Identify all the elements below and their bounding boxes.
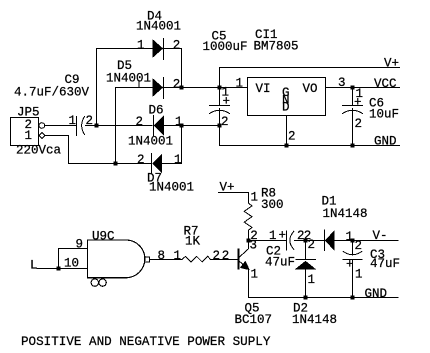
wire D6 anode to node [164, 125, 220, 127]
svg-text:D: D [282, 101, 290, 115]
junction AC2 D7 [113, 161, 117, 165]
wire regulator pin 2 to ground [286, 116, 288, 146]
svg-text:1: 1 [346, 230, 354, 244]
svg-text:2: 2 [86, 114, 94, 128]
wire D4 cathode down to D5 row [164, 49, 182, 88]
junction R8 collector C2 [246, 238, 250, 242]
svg-text:1N4148: 1N4148 [323, 207, 368, 221]
wire gate output to R7 [150, 259, 183, 261]
svg-text:1000uF: 1000uF [203, 40, 248, 54]
svg-text:10uF: 10uF [369, 108, 399, 122]
svg-text:1: 1 [137, 38, 145, 52]
svg-text:GND: GND [374, 135, 397, 149]
wire net L to gate [37, 268, 88, 270]
nand gate U9C body [88, 240, 145, 278]
svg-text:2: 2 [355, 239, 363, 253]
svg-text:2: 2 [221, 115, 229, 129]
capacitor C3 plate 2 curve [343, 251, 362, 254]
wire C2 to D2 node [295, 240, 306, 242]
svg-text:POSITIVE AND NEGATIVE POWER SU: POSITIVE AND NEGATIVE POWER SUPLY [21, 335, 271, 349]
capacitor C3 bottom lead [352, 260, 354, 298]
diode D2 triangle [296, 261, 315, 269]
svg-text:U9C: U9C [92, 230, 115, 244]
junction regulator pin2 gnd [284, 143, 288, 147]
svg-text:+: + [223, 95, 231, 109]
junction C6 bottom [350, 143, 354, 147]
svg-text:8: 8 [158, 249, 166, 263]
svg-text:1: 1 [355, 268, 363, 282]
wire JP5 pin1 to AC2 row [45, 136, 151, 164]
wire JP5 pin2 to C9 [45, 125, 76, 127]
nand gate output bubble [145, 257, 150, 262]
resistor R7 zigzag [182, 256, 211, 262]
wire AC2 vertical to D5 anode [116, 88, 153, 164]
capacitor C9 plate 1 [76, 117, 78, 136]
svg-text:10: 10 [64, 256, 79, 270]
svg-text:1N4001: 1N4001 [128, 135, 173, 149]
capacitor C6 plate 2 [343, 110, 363, 113]
wire gate pin 9 branch [59, 249, 88, 269]
svg-text:BM7805: BM7805 [254, 40, 299, 54]
capacitor C6 top lead [352, 88, 354, 106]
svg-text:1N4001: 1N4001 [136, 20, 181, 34]
net V+ underline and wire to R8 [219, 193, 249, 204]
svg-text:3: 3 [250, 239, 258, 253]
capacitor C6 bottom lead [352, 109, 354, 146]
svg-text:1K: 1K [185, 235, 201, 249]
svg-text:4.7uF/630V: 4.7uF/630V [14, 86, 90, 100]
junction C9 output [94, 123, 98, 127]
svg-text:2: 2 [355, 117, 363, 131]
diode D6 cathode bar [153, 116, 155, 136]
svg-text:VO: VO [303, 82, 318, 96]
diode D5 triangle [153, 79, 163, 97]
svg-text:2: 2 [173, 38, 181, 52]
svg-text:BC107: BC107 [235, 313, 273, 327]
diode D2 top lead [305, 241, 307, 260]
resistor R8 zigzag [244, 203, 252, 230]
svg-text:+: + [346, 257, 354, 271]
svg-text:V+: V+ [220, 181, 235, 195]
svg-text:47uF: 47uF [370, 257, 400, 271]
svg-text:300: 300 [261, 198, 284, 212]
junction D4 D5 cathodes [179, 85, 183, 89]
junction D1 C3 V- [350, 238, 354, 242]
capacitor C5 top lead [219, 88, 221, 106]
junction D6 D7 anodes [179, 123, 183, 127]
pin 1 tick D5 [138, 81, 140, 88]
svg-text:VI: VI [256, 82, 271, 96]
svg-text:3: 3 [338, 76, 346, 90]
svg-text:1: 1 [25, 129, 33, 143]
wire D2 node to D1 [306, 240, 325, 242]
svg-text:1N4148: 1N4148 [292, 313, 337, 327]
svg-text:2: 2 [213, 249, 221, 263]
wire R7 to Q5 base [211, 259, 239, 261]
svg-text:2: 2 [308, 238, 316, 252]
capacitor C3 top lead [352, 241, 354, 256]
capacitor C2 plate 2 [290, 231, 294, 249]
junction D2 gnd [303, 295, 307, 299]
regulator CI1 box [248, 78, 326, 116]
capacitor C6 plate 1 [343, 105, 363, 107]
diode D4 triangle [153, 40, 163, 58]
transistor Q5 collector [239, 241, 249, 258]
capacitor C5 bottom lead [219, 109, 221, 146]
svg-text:47uF: 47uF [265, 256, 295, 270]
wire VO to VCC rail [326, 87, 400, 89]
svg-text:1: 1 [269, 229, 277, 243]
svg-text:GND: GND [365, 287, 388, 301]
svg-text:1: 1 [251, 268, 259, 282]
svg-text:1: 1 [251, 191, 259, 205]
svg-text:220Vca: 220Vca [16, 144, 62, 158]
capacitor C3 plate 1 [343, 259, 362, 261]
svg-text:1: 1 [236, 77, 244, 91]
svg-text:L: L [30, 258, 38, 272]
svg-text:1: 1 [175, 115, 183, 129]
junction C5 top [217, 85, 221, 89]
diode D4 cathode bar [163, 39, 165, 60]
diode D7 cathode bar [151, 154, 153, 174]
diode D1 triangle [325, 231, 334, 250]
transistor Q5 base bar [238, 250, 240, 269]
svg-text:D6: D6 [149, 104, 164, 118]
junction C6 top [350, 85, 354, 89]
wire V+ rail [220, 68, 400, 88]
svg-text:1: 1 [174, 249, 182, 263]
wire D1 to V- node [334, 240, 398, 242]
junction C5 bottom [217, 123, 221, 127]
wire ground rail top [220, 145, 400, 147]
wire C9 to node AC1 [86, 125, 153, 127]
Q5 emitter arrow [241, 262, 249, 270]
diode D2 cathode bar [296, 259, 316, 261]
wire D5 cathode to regulator VI [164, 87, 248, 89]
nand gate oo mark 2 [99, 279, 106, 286]
svg-text:1N4001: 1N4001 [149, 181, 194, 195]
svg-text:1N4001: 1N4001 [106, 72, 151, 86]
nand gate oo mark 1 [91, 279, 98, 286]
capacitor C2 plate 1 [286, 231, 288, 250]
capacitor C9 plate 2 [82, 117, 85, 135]
svg-text:VCC: VCC [374, 77, 397, 91]
svg-text:2: 2 [136, 115, 144, 129]
svg-text:2: 2 [288, 130, 296, 144]
wire collector node to C2 [249, 240, 287, 242]
svg-text:2: 2 [137, 153, 145, 167]
capacitor C5 plate 1 [210, 105, 230, 107]
transistor Q5 emitter [239, 261, 249, 298]
svg-text:V+: V+ [384, 57, 399, 71]
diode D7 triangle [153, 154, 162, 172]
connector JP5 [11, 118, 39, 146]
svg-text:1: 1 [174, 153, 182, 167]
wire D7 anode up to D6 anode node [162, 126, 182, 164]
wire R8 to collector node [248, 230, 250, 240]
svg-text:2: 2 [222, 249, 230, 263]
svg-text:+: + [279, 228, 287, 242]
svg-text:1: 1 [308, 273, 316, 287]
svg-text:V-: V- [373, 229, 388, 243]
JP5 pin 2 circle [39, 123, 45, 129]
svg-text:2: 2 [173, 77, 181, 91]
junction gate inputs [56, 266, 60, 270]
wire AC1 vertical to D4 anode [97, 49, 153, 126]
wire ground rail bottom [249, 297, 399, 299]
svg-text:+: + [354, 96, 362, 110]
junction C2 D2 D1 [303, 238, 307, 242]
capacitor C5 plate 2 [210, 110, 230, 113]
junction C3 gnd [350, 295, 354, 299]
svg-text:1: 1 [69, 114, 77, 128]
diode D1 cathode bar [324, 230, 326, 251]
svg-text:9: 9 [76, 237, 84, 251]
JP5 pin 1 diamond [39, 133, 45, 139]
diode D6 triangle [154, 116, 163, 134]
diode D5 cathode bar [163, 78, 165, 99]
diode D2 bottom lead [305, 269, 307, 298]
